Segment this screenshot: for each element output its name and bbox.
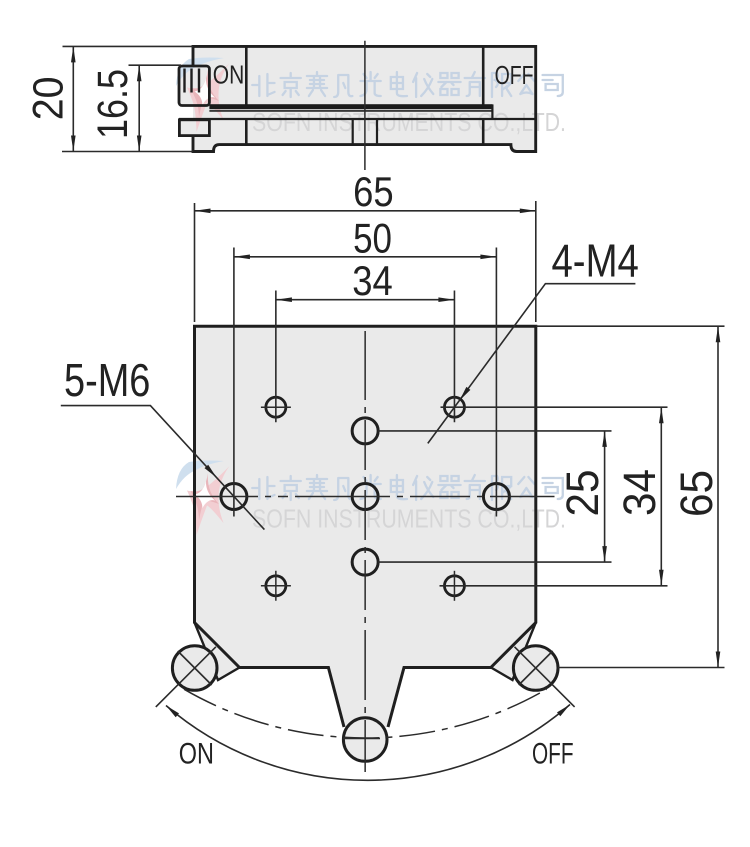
arrows 34 right — [659, 407, 664, 423]
slider bar right end — [491, 104, 493, 119]
left foot cross line — [178, 651, 212, 685]
divider right — [482, 46, 485, 144]
left foot triangle fill — [195, 623, 240, 681]
svg-text:4-M4: 4-M4 — [552, 235, 639, 287]
center boss lines — [353, 119, 377, 145]
watermark 2 cjk — [252, 475, 563, 500]
dim line 16.5 — [138, 65, 140, 151]
left foot radial line — [156, 647, 216, 707]
hole M4 topright — [444, 397, 464, 417]
M4 bottomright v tick — [453, 571, 455, 601]
ext 65 top right — [536, 325, 725, 327]
svg-text:OFF: OFF — [532, 738, 574, 771]
arrows 65 right — [716, 326, 721, 342]
dim line 65 right — [717, 326, 719, 667]
dim line 50 — [234, 256, 497, 258]
svg-text:ON: ON — [179, 738, 214, 771]
ext 50 left (into hole) — [233, 248, 235, 517]
ext 34 top right / M4 row1 — [441, 406, 668, 408]
slider bar bottom thin line — [209, 110, 492, 112]
ext line bottom — [62, 151, 193, 153]
feet cross lines — [156, 647, 575, 739]
arrow 4-M4 — [460, 387, 471, 401]
dim line 20 — [72, 46, 74, 151]
top view centerline — [364, 41, 366, 170]
ext 25 bottom / mid hole row2 line — [378, 561, 611, 563]
rotation range arc — [166, 705, 570, 781]
slider bar dark — [209, 104, 492, 109]
watermark 2 logo — [176, 460, 230, 535]
plate outline — [195, 326, 536, 727]
arrows 20 — [71, 46, 76, 62]
ext 34 right — [453, 291, 455, 423]
bottom plate fill — [195, 326, 536, 727]
strip bottom line — [179, 118, 536, 120]
svg-text:25: 25 — [557, 470, 608, 517]
bottom foot circle — [343, 718, 387, 762]
top view body outline — [193, 46, 536, 151]
centerlines and ticks — [176, 331, 555, 772]
svg-text:ON: ON — [213, 62, 245, 90]
arrow arc left — [166, 706, 179, 718]
tab hatch lines — [185, 69, 200, 93]
right foot circle — [513, 646, 558, 691]
hole M6 center — [352, 484, 378, 510]
leader 5-M6 — [61, 406, 265, 530]
svg-text:34: 34 — [614, 469, 665, 516]
hole M6 right — [483, 484, 509, 510]
arrows 50 — [234, 255, 250, 260]
hole M6 lower — [352, 549, 378, 575]
svg-text:SOFN INSTRUMENTS CO.,LTD.: SOFN INSTRUMENTS CO.,LTD. — [252, 504, 566, 534]
svg-text:OFF: OFF — [495, 62, 534, 90]
ext 65 left — [194, 203, 196, 322]
arrow 5-M6 — [205, 465, 217, 478]
svg-text:5-M6: 5-M6 — [64, 354, 150, 406]
bottom foot h tick — [343, 738, 380, 740]
watermark 1 logo — [176, 57, 230, 132]
hole M4 topleft — [266, 397, 286, 417]
right foot cross line — [519, 651, 553, 685]
dim line 34 — [276, 299, 455, 301]
rotation centerline arc dashdot — [184, 689, 547, 738]
arrows 65 top — [195, 209, 211, 214]
right foot triangle — [491, 623, 536, 681]
tab upper outline — [179, 66, 209, 106]
vertical centerline — [364, 331, 366, 772]
arrows 25 — [602, 431, 607, 447]
svg-text:65: 65 — [671, 470, 722, 517]
left foot triangle — [195, 623, 240, 681]
top view tab upper fill — [179, 66, 209, 106]
svg-text:20: 20 — [25, 77, 73, 121]
svg-text:50: 50 — [353, 215, 392, 262]
top view labels — [213, 62, 534, 91]
arrows 34 top — [276, 297, 292, 302]
hole M4 bottomright — [444, 576, 464, 596]
hole M6 left — [221, 484, 247, 510]
M4 bottomleft ticks — [261, 571, 291, 601]
top view tab lower fill — [179, 120, 209, 136]
holes — [221, 397, 510, 596]
dim line 65 — [195, 210, 536, 212]
arrows 16.5 — [137, 65, 142, 81]
top view body fill — [193, 46, 536, 151]
dim line 34 right — [660, 407, 662, 586]
ext 50 right — [495, 248, 497, 517]
watermark 1 cjk — [252, 72, 563, 97]
M4 topleft h tick — [261, 406, 291, 408]
right foot triangle fill — [491, 623, 536, 681]
ext 34 bottom right / M4 row2 — [440, 585, 668, 587]
hole M6 upper — [352, 418, 378, 444]
ext line top for 20 — [63, 45, 194, 47]
tab lower box outline — [179, 120, 209, 136]
svg-text:65: 65 — [353, 168, 394, 215]
left foot circle — [172, 646, 217, 691]
right foot radial line — [515, 647, 575, 707]
divider left — [245, 46, 248, 144]
horizontal centerline — [176, 496, 555, 498]
ext 65 right — [535, 201, 537, 322]
svg-text:34: 34 — [352, 257, 393, 304]
ext 34 left — [275, 291, 277, 423]
dim line 25 — [604, 431, 606, 562]
ext line top for 16.5 — [129, 64, 182, 66]
svg-text:16.5: 16.5 — [89, 69, 137, 139]
ext 65 bottom right — [558, 667, 725, 669]
arrow arc right — [557, 705, 570, 717]
leader 4-M4 — [428, 284, 636, 444]
hole M4 bottomleft — [266, 576, 286, 596]
ext 25 top / mid hole row1 line — [378, 430, 611, 432]
